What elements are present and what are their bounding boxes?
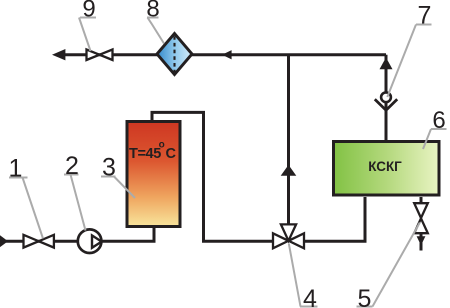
valve V9 bowtie bbox=[87, 50, 113, 61]
leader for label 7 bbox=[387, 25, 431, 98]
pump P2 triangle bbox=[92, 235, 102, 247]
wire vertical from top pipe to three-way valve bbox=[287, 55, 290, 226]
wire vertical from KSKG top to top pipe bbox=[385, 55, 388, 142]
leader for label 6 bbox=[423, 129, 447, 149]
arrow up on vertical x386 bbox=[380, 58, 393, 70]
check valve U7 seat V bbox=[375, 99, 397, 110]
svg-text:T=45: T=45 bbox=[129, 146, 161, 162]
wire KSKG bottom right to valve 5 bbox=[420, 197, 423, 205]
svg-text:o: o bbox=[159, 140, 165, 151]
arrow outflow left end of top pipe bbox=[52, 49, 65, 60]
check valve U7 circle bbox=[381, 92, 391, 102]
wire valve 5 to drain arrow bbox=[420, 232, 423, 251]
svg-text:6: 6 bbox=[432, 107, 445, 134]
svg-text:9: 9 bbox=[82, 0, 95, 23]
pump P2 circle bbox=[78, 229, 102, 253]
wire bottom feed pipe to tank bottom bbox=[6, 226, 154, 241]
svg-text:C: C bbox=[166, 146, 177, 162]
valve V5 vertical bowtie bbox=[414, 203, 428, 233]
leader for label 4 bbox=[289, 244, 318, 307]
leader for label 3 bbox=[101, 177, 135, 199]
svg-text:КСКГ: КСКГ bbox=[368, 158, 402, 174]
leader for label 8 bbox=[147, 18, 164, 44]
vessel T3 tank bbox=[127, 122, 180, 227]
three-way valve V4 bbox=[273, 224, 304, 248]
block U6 KSKG bbox=[334, 142, 440, 196]
svg-text:3: 3 bbox=[102, 154, 116, 182]
filter F8 dashed element bbox=[173, 36, 175, 72]
arrow drain down below valve 5 bbox=[417, 236, 426, 245]
svg-text:5: 5 bbox=[358, 285, 372, 308]
arrow up on vertical x288 bbox=[281, 165, 297, 176]
leader for label 2 bbox=[64, 175, 86, 231]
arrow mid top pipe pointing left bbox=[222, 50, 232, 59]
valve V1 bowtie bbox=[24, 235, 54, 248]
leader for label 1 bbox=[9, 178, 43, 239]
svg-text:7: 7 bbox=[418, 2, 432, 30]
svg-text:8: 8 bbox=[146, 0, 159, 23]
leader for label 9 bbox=[79, 18, 96, 52]
leader for label 5 bbox=[357, 223, 420, 307]
arrow feed inlet bottom left bbox=[0, 234, 8, 249]
svg-text:4: 4 bbox=[303, 285, 317, 308]
wire top pipe bbox=[58, 53, 386, 56]
wire tank top to three-way valve bbox=[152, 112, 274, 241]
svg-text:2: 2 bbox=[65, 152, 79, 180]
wire three-way valve to KSKG bottom bbox=[303, 197, 365, 241]
svg-text:1: 1 bbox=[9, 155, 23, 183]
filter F8 diamond bbox=[157, 34, 192, 75]
